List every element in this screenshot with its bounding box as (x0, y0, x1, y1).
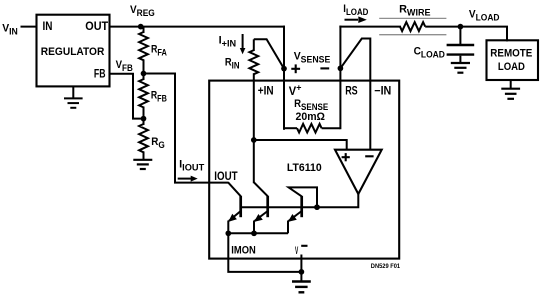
wire mirror emitter rail (228, 232, 288, 234)
current I+IN arrow (240, 34, 246, 54)
node emitter rail dot Q2 (251, 230, 257, 236)
resistor RFB label (151, 90, 167, 104)
regulator pin FB label (94, 68, 106, 81)
node VFB junction dot (141, 71, 147, 77)
RSENSE value label (296, 111, 326, 123)
resistor RG label (151, 137, 165, 151)
remote load text line 2 (498, 61, 525, 73)
current ILOAD label (343, 3, 368, 17)
ground below regulator (64, 87, 83, 108)
regulator label (41, 46, 105, 59)
resistor RIN (249, 39, 258, 140)
svg-text:20mΩ: 20mΩ (296, 111, 326, 123)
wire VFB node to IOUT pin (144, 74, 229, 183)
remote load text line 1 (490, 48, 532, 60)
VSENSE minus sign (320, 67, 329, 69)
svg-text:REGULATOR: REGULATOR (41, 46, 105, 59)
pin V+ label (289, 82, 302, 98)
op-amp + input sign (342, 153, 350, 161)
capacitor CLOAD (447, 27, 475, 63)
svg-text:RFA: RFA (151, 43, 167, 57)
svg-text:RFB: RFB (151, 90, 167, 104)
pin -IN label (374, 85, 391, 97)
node VSENSE+ dot (281, 66, 287, 72)
pin IOUT label (214, 170, 238, 183)
regulator pin OUT label (85, 21, 108, 34)
svg-text:LOAD: LOAD (498, 61, 525, 73)
transistor Q1 (IOUT) (228, 182, 241, 233)
node VREG junction dot (138, 24, 144, 30)
svg-text:RIN: RIN (225, 57, 240, 71)
transistor Q3 (diode-connected) (288, 187, 317, 233)
resistor RWIRE label (399, 4, 430, 18)
ground below CLOAD (451, 63, 470, 73)
node VSENSE label (294, 50, 331, 64)
regulator pin IN label (43, 20, 53, 33)
chip label LT6110 (287, 162, 322, 174)
node VLOAD dot (458, 24, 464, 30)
LT6110 chip box (209, 81, 399, 259)
svg-text:LT6110: LT6110 (287, 162, 322, 174)
svg-text:RS: RS (345, 86, 358, 98)
wire OUT pin to VSENSE corner (110, 26, 285, 28)
transistor Q2 (IMON) (254, 182, 268, 233)
wire down to VSENSE+ node (283, 26, 285, 69)
wire op-amp output to mirror base rail (317, 193, 358, 207)
svg-text:IOUT: IOUT (214, 170, 238, 183)
remote load box (487, 40, 539, 80)
wire VLOAD to remote load box (460, 27, 507, 42)
regulator U2 box (37, 15, 110, 87)
svg-text:OUT: OUT (85, 21, 108, 34)
svg-text:+IN: +IN (258, 85, 274, 98)
current IIOUT label (179, 158, 205, 172)
ground below remote load (501, 80, 520, 99)
wire VIN to regulator (21, 26, 38, 28)
node emitter rail dot Q1 (225, 230, 231, 236)
current ILOAD arrow (345, 16, 367, 23)
ground below chip (292, 272, 311, 292)
resistor RFA (139, 27, 148, 74)
node VFB label (116, 59, 133, 73)
op-amp - input sign (365, 155, 373, 157)
resistor RIN label (225, 57, 240, 71)
current IIOUT arrow (178, 176, 198, 182)
op-amp U1 (335, 150, 382, 194)
pin V- label (295, 243, 308, 256)
svg-text:VFB: VFB (116, 59, 133, 73)
wire VSENSE- node up to load rail (339, 26, 341, 69)
pin +IN label (258, 85, 274, 98)
wire load rail to RWIRE (339, 26, 401, 28)
wire RIN top kelvin slant to VSENSE+ (254, 39, 284, 68)
resistor RFA label (151, 43, 167, 57)
wire bundle bottom gray line (379, 34, 446, 36)
svg-text:V: V (295, 243, 298, 256)
node RFB-RG junction dot (141, 116, 147, 122)
resistor RWIRE (400, 22, 461, 31)
svg-text:FB: FB (94, 68, 106, 81)
pin RS wire up to VSENSE- node (339, 68, 341, 129)
resistor RFB (139, 74, 148, 119)
svg-text:RG: RG (151, 137, 165, 151)
pin IMON label (231, 245, 255, 257)
svg-text:−IN: −IN (374, 85, 391, 97)
node VSENSE- dot (338, 65, 344, 71)
node V- ground dot (299, 269, 305, 275)
wire base rail (241, 206, 317, 208)
VSENSE plus sign (291, 64, 300, 73)
node VREG label (130, 4, 155, 19)
figure label DN529 F01 (371, 264, 401, 270)
resistor RG (139, 119, 148, 160)
current I+IN label (219, 34, 237, 48)
pin RS label (345, 86, 358, 98)
wire +IN pin down to Q2 collector (253, 140, 255, 183)
svg-text:IMON: IMON (231, 245, 255, 257)
capacitor CLOAD label (414, 45, 445, 59)
wire kelvin slant to -IN pin (340, 39, 370, 151)
node +IN junction dot (251, 137, 257, 143)
wire FB pin jog to divider tap (110, 74, 144, 119)
wire +IN pin to op-amp + input (254, 140, 347, 151)
svg-text:ILOAD: ILOAD (343, 3, 368, 17)
svg-text:REMOTE: REMOTE (490, 48, 532, 60)
ground below RG (133, 160, 152, 169)
wire V- pin down to ground node (300, 255, 302, 272)
resistor RSENSE 20mΩ (284, 124, 340, 133)
wire IMON pin down and right to V- node (228, 233, 301, 272)
wire bundle top gray line (379, 17, 446, 19)
svg-text:DN529 F01: DN529 F01 (371, 264, 401, 270)
pin V+ wire down to RSENSE (283, 69, 285, 130)
node VIN label (2, 22, 18, 36)
resistor RSENSE label (294, 99, 328, 113)
svg-text:IN: IN (43, 20, 53, 33)
node base rail dot (314, 204, 320, 210)
node VLOAD label (469, 8, 500, 22)
